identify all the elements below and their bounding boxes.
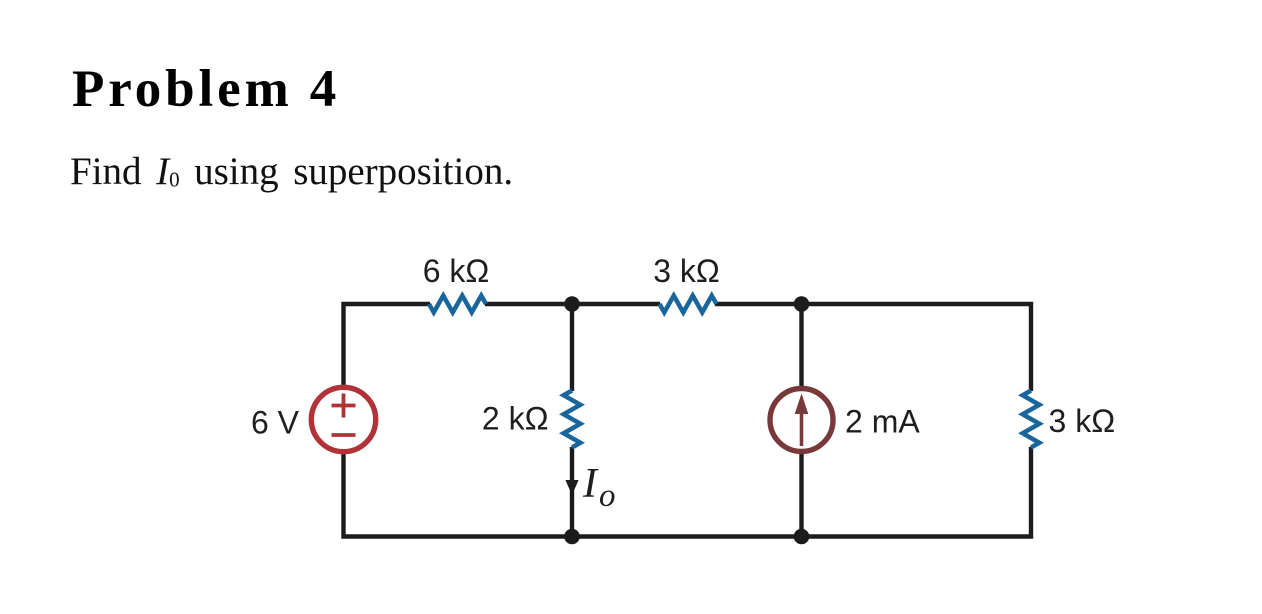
wire top middle bbox=[485, 302, 660, 306]
Io arrowhead on middle branch bbox=[565, 480, 578, 495]
label Io bbox=[582, 461, 616, 514]
resistor R1 6k horizontal bbox=[429, 296, 486, 313]
current source I1 circle bbox=[770, 389, 833, 452]
wire top-left corner bbox=[344, 304, 431, 387]
node bottom-right bbox=[794, 529, 810, 545]
node top-right bbox=[794, 296, 810, 312]
wire current-source branch upper bbox=[799, 304, 803, 388]
svg-text:I: I bbox=[582, 461, 599, 507]
resistor R2 3k horizontal bbox=[660, 296, 717, 313]
voltage source V1 circle bbox=[311, 387, 375, 451]
node bottom-middle bbox=[564, 529, 580, 545]
wire top-right corner bbox=[715, 304, 1031, 391]
label 2 kOhm bbox=[482, 401, 549, 437]
voltage source minus sign bbox=[332, 433, 356, 437]
svg-text:2 kΩ: 2 kΩ bbox=[482, 401, 549, 437]
svg-text:6 V: 6 V bbox=[251, 405, 300, 441]
label 3 kOhm right bbox=[1049, 403, 1116, 439]
label 6 V bbox=[251, 405, 300, 441]
svg-text:o: o bbox=[599, 478, 616, 514]
resistor R3 2k vertical bbox=[564, 391, 581, 448]
wire middle branch lower bbox=[570, 447, 574, 537]
wire bottom bbox=[344, 447, 1032, 537]
label 2 mA bbox=[845, 404, 920, 440]
wire middle branch upper bbox=[570, 304, 574, 391]
label 6 kOhm bbox=[423, 253, 490, 289]
wire current-source branch lower bbox=[799, 452, 803, 537]
current source arrow bbox=[795, 394, 809, 447]
voltage source plus sign bbox=[332, 394, 356, 418]
svg-text:3 kΩ: 3 kΩ bbox=[653, 253, 720, 289]
label 3 kOhm top bbox=[653, 253, 720, 289]
svg-text:6 kΩ: 6 kΩ bbox=[423, 253, 490, 289]
svg-text:3 kΩ: 3 kΩ bbox=[1049, 403, 1116, 439]
node top-middle bbox=[564, 296, 580, 312]
svg-text:2 mA: 2 mA bbox=[845, 404, 920, 440]
resistor R4 3k vertical bbox=[1023, 391, 1040, 448]
